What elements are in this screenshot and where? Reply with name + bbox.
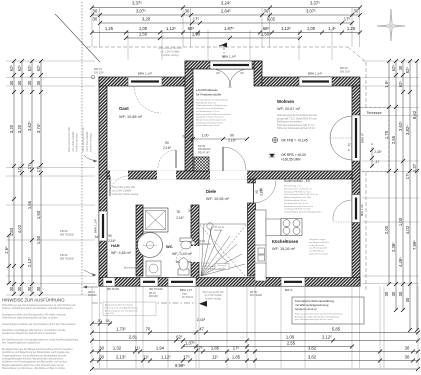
svg-text:11⁵: 11⁵ [134,346,140,351]
svg-text:ausgeführt werden. Innenputz: ausgeführt werden. Innenputz [196,116,224,119]
svg-text:1,87⁵: 1,87⁵ [224,26,234,31]
rotated pipe note left 2 [81,127,93,152]
dimension chain bottom row D [90,346,420,354]
svg-text:DN 70/100: DN 70/100 [60,257,74,261]
kitchen small dim [259,188,263,192]
extension lines top [91,8,93,47]
svg-text:30: 30 [17,80,22,85]
svg-text:des Tragwerksplaners maßgebend: des Tragwerksplaners maßgebend. [2,342,41,345]
svg-text:WC: WC [166,244,173,249]
svg-text:Treppe: Treppe [202,262,210,265]
svg-text:30: 30 [93,17,98,22]
RR 01 arrow to wall corner [84,270,96,275]
door Diele/Kueche [248,179,277,203]
svg-text:Ausführung und Anordnung der L: Ausführung und Anordnung der Lüftungsöff… [295,315,340,318]
svg-text:Abgasleitung Brennwertgerät: Abgasleitung Brennwertgerät [105,304,134,307]
FR 03 note [198,239,211,246]
dimension chain right col 1 [384,59,391,296]
FR 02 note [60,253,74,261]
svg-text:mit 1,5% Gefälle: mit 1,5% Gefälle [160,49,180,53]
svg-text:Planung und Dimensionierung du: Planung und Dimensionierung durch Herste… [295,313,344,316]
svg-text:HAR: HAR [111,243,120,248]
svg-text:1,94: 1,94 [156,346,165,351]
door gap HAR [110,171,128,180]
svg-text:3,37⁵: 3,37⁵ [132,1,142,6]
LAU window door arcs [212,69,248,88]
sewer connection arrow [84,155,97,161]
svg-text:17⁵: 17⁵ [17,166,22,173]
svg-text:68⁵: 68⁵ [188,26,195,31]
dimension chain bottom row F overall [90,363,420,371]
svg-text:11⁵: 11⁵ [143,355,149,360]
svg-text:1,00: 1,00 [202,134,209,138]
dimension chain bottom row C [181,341,354,349]
svg-text:3,82⁵: 3,82⁵ [405,125,410,135]
dimension chain bottom row B [90,335,420,343]
terrace double door leaves [330,116,352,160]
svg-text:Sauberkeitsschicht 5 cm: Sauberkeitsschicht 5 cm [284,202,308,205]
svg-text:Wandstärke 10cm als: Wandstärke 10cm als [196,101,216,104]
svg-text:30: 30 [405,346,410,351]
wall HAR/WC divider [136,205,143,276]
svg-text:Brennwertgerät: Brennwertgerät [124,267,140,270]
svg-text:BRH 1,14⁵: BRH 1,14⁵ [138,72,153,76]
svg-text:62⁵: 62⁵ [9,65,14,72]
dimension chain left col 4 [36,59,43,296]
dimension chain right col 5 [412,59,419,332]
section line A bottom with arrow [92,302,196,304]
door Gast (from Diele) [158,150,176,168]
Gasanschluss marker [215,264,229,270]
Abgasleitung lines [105,304,139,316]
svg-text:4,49⁵: 4,49⁵ [398,257,403,267]
svg-text:BRH 1,14⁵: BRH 1,14⁵ [360,204,364,216]
window bottom (Kueche) [281,278,305,287]
svg-text:8,62: 8,62 [412,110,417,119]
wall left exterior [99,77,107,286]
svg-text:von Metallbauer: von Metallbauer [309,250,325,253]
svg-text:62⁵: 62⁵ [27,65,32,72]
svg-text:2,43⁵: 2,43⁵ [197,318,206,322]
svg-text:an der Bauseite: an der Bauseite [309,244,325,247]
svg-text:Höhe der Aufmauerung hat 4,5 c: Höhe der Aufmauerung hat 4,5 cm [277,127,315,130]
svg-text:BRH 1,14⁵: BRH 1,14⁵ [222,55,237,59]
svg-text:3,82: 3,82 [308,346,317,351]
door size labels kitchen door [255,190,259,194]
chimney RD 47/47 [194,157,209,171]
svg-text:17⁵: 17⁵ [405,173,410,180]
window BRH 1,14 top-left (Gast) [128,77,162,86]
svg-text:Gemäß LAU-VO am Wärmebedarf: Gemäß LAU-VO am Wärmebedarf [196,99,228,102]
svg-text:Terrasse: Terrasse [366,110,382,115]
svg-text:17⁵: 17⁵ [344,17,351,22]
svg-text:1,50: 1,50 [36,235,41,244]
svg-text:17⁵: 17⁵ [233,346,240,351]
svg-text:nach Angabe: nach Angabe [202,265,216,268]
svg-text:11⁵: 11⁵ [212,355,218,360]
FR 01 note [149,292,158,298]
shower [143,208,168,232]
dimension chain top row 4 [90,26,362,35]
Treppe nach Angabe [202,262,218,271]
FR 05 note [250,291,263,297]
svg-text:DN 100: DN 100 [149,295,158,298]
Wohnen Aufmauerung note [277,114,317,130]
door LAU/hall leaf open [223,147,246,171]
wall right exterior [352,86,360,286]
svg-text:4,02: 4,02 [17,224,22,233]
wall top-left exterior [99,77,193,86]
svg-text:WF: 20,67 m²: WF: 20,67 m² [277,107,301,111]
Lunos box [292,297,364,324]
svg-text:30: 30 [405,297,410,302]
svg-text:BD 70./100: BD 70./100 [150,287,164,291]
terrace outline [360,108,389,172]
svg-text:30: 30 [398,291,403,296]
svg-text:frostfrei verlegt: frostfrei verlegt [89,133,93,152]
svg-text:78: 78 [176,210,180,214]
terrace door opening right wall [352,115,360,161]
dimension chain top row 3 [93,17,354,26]
svg-text:DN 100: DN 100 [94,70,104,74]
Gast window leaf arc [134,86,161,113]
svg-text:,47: ,47 [375,160,380,164]
svg-text:30: 30 [384,291,389,296]
svg-text:30: 30 [9,286,14,291]
FR 04 note [60,229,74,237]
svg-text:frostfrei verlegt: frostfrei verlegt [161,53,178,57]
dimension chain bottom row A [90,327,420,335]
dimension chain left col 3 [27,59,34,296]
svg-text:OK RFB = ±0,00: OK RFB = ±0,00 [281,153,306,157]
svg-text:2,38⁵: 2,38⁵ [391,242,396,252]
LAU details [196,99,231,128]
door gap WC [191,246,200,262]
svg-text:1,00: 1,00 [139,26,148,31]
note RW-Leitung top [158,46,182,57]
svg-text:3,20: 3,20 [17,124,22,133]
svg-text:dort Bst.: dort Bst. [218,267,226,270]
sewer main dotted line [81,2,83,296]
svg-text:1,37: 1,37 [412,163,417,172]
svg-text:Gasanschl.: Gasanschl. [217,265,227,267]
boiler Brennwertkessel [138,233,163,258]
svg-text:30: 30 [17,286,22,291]
svg-text:BRH 1,14⁵: BRH 1,14⁵ [94,218,98,233]
svg-text:Gast: Gast [119,106,129,111]
svg-text:Estrichbelag 1 cm: Estrichbelag 1 cm [284,185,302,188]
dimension chain left col 2 [17,59,24,296]
svg-text:30: 30 [93,9,98,14]
dimension chain bottom row E [90,355,420,363]
svg-text:17⁵: 17⁵ [183,355,190,360]
svg-text:90: 90 [108,234,112,238]
svg-text:1,50: 1,50 [261,32,270,37]
svg-text:1,4⁵: 1,4⁵ [328,26,336,31]
svg-text:Planverfasser zu informieren.: Planverfasser zu informieren. Alle Maße … [2,367,66,370]
svg-text:2,81: 2,81 [129,335,138,340]
svg-text:frostfrei verlegt: frostfrei verlegt [75,133,79,152]
door Kueche right wall arc [333,200,352,222]
svg-text:30: 30 [354,9,359,14]
roof overhang right side [365,62,367,107]
svg-text:DN 70/100: DN 70/100 [250,294,263,297]
svg-text:mit 2,5% Gefälle: mit 2,5% Gefälle [112,188,132,192]
svg-text:2,12⁵: 2,12⁵ [27,257,32,267]
svg-text:30: 30 [36,286,41,291]
svg-text:von Sparte und Glas: von Sparte und Glas [309,241,330,244]
svg-text:1,73⁵: 1,73⁵ [116,327,126,332]
svg-text:1,85: 1,85 [211,346,220,351]
svg-text:DN 100: DN 100 [88,294,97,297]
dimension chain left col 1 [9,59,16,296]
window BRH 1,14 top-right (Wohnen) [299,77,332,86]
svg-text:6,02: 6,02 [267,17,276,22]
section arrow top [223,44,225,58]
svg-text:30: 30 [264,9,269,14]
stove with 4 plates [281,219,302,236]
svg-text:2,16⁵: 2,16⁵ [108,239,116,243]
svg-text:BRH 1,27: BRH 1,27 [180,288,193,292]
washing machine [146,261,161,276]
svg-text:30: 30 [405,355,410,360]
svg-text:17: 17 [347,143,351,147]
svg-text:30: 30 [36,80,41,85]
wall top-right exterior [262,77,360,86]
svg-text:30: 30 [185,9,190,14]
sewer diagonal line RW [58,17,100,62]
svg-text:1,12⁵: 1,12⁵ [166,26,176,31]
svg-text:68⁵: 68⁵ [263,26,270,31]
wall Diele/Kueche divider [248,203,256,276]
staircase to basement [200,224,246,277]
svg-text:17⁵: 17⁵ [27,163,32,170]
svg-text:2,16⁵: 2,16⁵ [163,146,172,150]
svg-text:2,13⁵: 2,13⁵ [116,355,126,360]
svg-text:3,82: 3,82 [308,355,317,360]
svg-text:BRH 9⁵: BRH 9⁵ [361,132,365,143]
small dims near terrace [371,147,373,167]
svg-text:BD 18./18: BD 18./18 [107,287,119,291]
dimension chain top row 5 [124,32,302,41]
note BR 03 [94,67,104,74]
svg-text:62⁵: 62⁵ [391,65,396,72]
svg-text:Landesbauordnung beachten: Landesbauordnung beachten [196,121,224,124]
svg-text:75: 75 [182,135,186,139]
svg-text:OK FFB = +0,145: OK FFB = +0,145 [281,139,308,143]
extension lines right [362,60,419,62]
svg-text:Stahlbetonplatte 18 cm: Stahlbetonplatte 18 cm [284,199,307,202]
svg-text:30: 30 [391,291,396,296]
svg-text:RD 47./47: RD 47./47 [198,150,210,154]
door gap LAU and hall door [210,171,247,180]
svg-text:Trennlage PE-Folie 0,2 mm: Trennlage PE-Folie 0,2 mm [284,190,311,193]
svg-text:+160,55 ÜNN: +160,55 ÜNN [281,158,301,162]
door gap Gast [157,171,176,180]
dimension chain top row 2 [90,9,362,18]
svg-text:3,37⁵: 3,37⁵ [310,1,320,6]
svg-text:Brennwertgerät und installateu: Brennwertgerät und installateuren [105,309,139,312]
WC washbasin [180,238,192,249]
svg-text:PS-Dämmplatte WLG 035 10,5 cm: PS-Dämmplatte WLG 035 10,5 cm [284,193,318,196]
wall bottom exterior [99,278,360,287]
svg-text:17⁵: 17⁵ [36,166,41,173]
Kueche Loggia note [309,238,330,256]
door WC (from Diele) [176,247,191,262]
svg-text:2,55: 2,55 [391,135,396,144]
svg-text:DN 50/100: DN 50/100 [198,242,211,246]
svg-text:2,6⁵: 2,6⁵ [4,246,9,254]
svg-text:2,12⁵: 2,12⁵ [322,335,332,340]
wall WC/stairs divider [191,205,199,278]
svg-text:1,75: 1,75 [384,130,389,139]
svg-text:1,12⁵: 1,12⁵ [161,355,171,360]
svg-text:Führung zwischen Abgabeleitung: Führung zwischen Abgabeleitung [105,306,138,309]
wall jog right of raised section [254,61,262,86]
svg-text:unter der Sohle verlegt: unter der Sohle verlegt [112,192,139,196]
svg-text:Unternehmer eigenverantwortlic: Unternehmer eigenverantwortlich am Bau z… [2,316,59,319]
svg-text:2,55: 2,55 [287,341,296,346]
svg-text:OK: OK [216,71,220,75]
svg-text:WF: 10,88 m²: WF: 10,88 m² [119,115,143,119]
svg-text:62⁵: 62⁵ [405,67,410,74]
svg-text:Druckfestigkeit gemäß Statikgu: Druckfestigkeit gemäß Statikgutachten [284,211,322,214]
svg-text:1,25: 1,25 [105,26,114,31]
svg-text:2,00: 2,00 [384,225,389,234]
FR 06 note [198,144,211,154]
svg-text:BRh 9⁵: BRh 9⁵ [285,288,293,292]
stair walk line with circle [207,223,213,229]
svg-text:20: 20 [188,209,192,213]
svg-text:4,02: 4,02 [405,225,410,234]
svg-text:Zementestrich CT-F4 4,5 cm: Zementestrich CT-F4 4,5 cm [284,187,312,190]
OK FFB marker [272,137,277,142]
VB Decke ueber EG [214,227,225,232]
svg-text:gem. Montageanleitungen der Fa: gem. Montageanleitungen der Fa. Lunos [295,318,332,321]
svg-text:5,85: 5,85 [332,327,341,332]
svg-text:1,50: 1,50 [192,32,201,37]
svg-text:1,66: 1,66 [27,200,32,209]
svg-text:90: 90 [259,188,263,192]
svg-text:auf Mindeststärke 1,5 cm: auf Mindeststärke 1,5 cm [196,110,219,113]
svg-text:BRH 1,14⁵: BRH 1,14⁵ [308,72,323,76]
svg-text:2,16⁵: 2,16⁵ [176,216,184,220]
vent circle FR03 [191,241,195,245]
svg-text:90: 90 [230,134,234,138]
svg-text:90: 90 [165,141,169,145]
svg-text:2,64⁵: 2,64⁵ [221,9,231,14]
svg-text:1,00: 1,00 [307,26,316,31]
svg-text:WF: 4,65 m²: WF: 4,65 m² [111,251,132,255]
svg-text:Verglaste Loggia: Verglaste Loggia [309,238,326,241]
svg-text:über EG: über EG [214,229,223,232]
dimension chain left col A [4,233,11,285]
svg-text:aus Planungsprofil: aus Planungsprofil [309,247,328,250]
svg-text:Küche/Essen: Küche/Essen [272,239,299,244]
svg-text:3,07⁵: 3,07⁵ [306,9,316,14]
svg-text:1,93: 1,93 [36,210,41,219]
svg-text:,47: ,47 [198,327,204,332]
note BR 02 [340,66,350,73]
OK RFB marker [269,154,275,157]
svg-text:9,99⁵: 9,99⁵ [175,363,185,368]
WC toilet [178,258,189,275]
svg-text:WF: 3,43 m²: WF: 3,43 m² [172,252,193,256]
window/door right wall (Kueche) [352,195,360,223]
svg-text:Bodenaufbau - EG: Bodenaufbau - EG [284,179,311,183]
svg-text:3,62⁵: 3,62⁵ [27,121,32,131]
svg-text:DN 50/100: DN 50/100 [182,297,194,299]
svg-text:Außen- gemäß Schallschutznachw: Außen- gemäß Schallschutznachweis [196,113,231,116]
kitchen north counter band [266,219,281,236]
svg-text:70: 70 [146,327,151,332]
RR 01 note [88,291,97,297]
svg-text:30: 30 [398,65,403,70]
svg-text:30: 30 [27,286,32,291]
svg-text:für Festbrennstoffe: für Festbrennstoffe [196,93,221,97]
svg-text:SW-Leitung DN 100: SW-Leitung DN 100 [112,185,136,189]
svg-text:17⁵: 17⁵ [196,346,203,351]
svg-text:DN 70/100: DN 70/100 [60,233,74,237]
dimension chain top row 1 [90,1,362,10]
kitchen counter [255,210,266,281]
svg-text:7,99⁵: 7,99⁵ [412,240,417,250]
svg-text:3,74⁵: 3,74⁵ [36,123,41,133]
VSB note [182,294,194,299]
roof overhang dashed outline top [87,46,348,48]
svg-text:2,43⁵: 2,43⁵ [374,150,382,154]
dim line LAU doors [193,138,247,140]
svg-text:VB Decke: VB Decke [214,227,225,229]
door HAR (from Diele) [110,176,128,196]
svg-text:HINWEISE ZUR AUSFÜHRUNG: HINWEISE ZUR AUSFÜHRUNG [2,298,65,303]
svg-text:1,32: 1,32 [113,346,122,351]
svg-text:62⁵: 62⁵ [398,81,403,88]
svg-text:Planziegelwände im Erdgeschoss: Planziegelwände im Erdgeschoss [196,104,227,107]
svg-text:30: 30 [27,80,32,85]
svg-text:Wohnen: Wohnen [277,99,295,104]
svg-text:Abdichtungsbahn nach DIN: Abdichtungsbahn nach DIN [284,196,311,199]
wall raised top section [185,61,262,69]
svg-text:3,24⁵: 3,24⁵ [221,1,231,6]
svg-text:WF: 10,08 m²: WF: 10,08 m² [206,197,230,201]
svg-text:abgesichert werden: abgesichert werden [309,253,329,256]
svg-text:1,12⁵: 1,12⁵ [281,26,291,31]
svg-text:18: 18 [106,319,110,323]
svg-text:örtlichen Verhältnisse durch d: örtlichen Verhältnisse durch den Bauleit… [2,307,73,310]
svg-text:Brandschutzanforderungen nach: Brandschutzanforderungen nach [196,118,227,121]
svg-text:DN 100: DN 100 [340,69,350,73]
svg-text:Abweichungen bedürfen der Gene: Abweichungen bedürfen der Genehmigung du… [2,323,76,326]
svg-text:verd. F/b: verd. F/b [105,312,114,315]
dimension chain right col 4 [405,59,412,332]
north arrow star [377,9,405,41]
extension lines bottom [91,286,93,368]
Bodenaufbau lines [284,185,322,214]
svg-text:1,00: 1,00 [398,217,403,226]
svg-text:System Lunos e²: System Lunos e² [295,307,317,311]
svg-text:1,25: 1,25 [347,26,356,31]
svg-text:1,50: 1,50 [139,32,148,37]
window BRH 1,14 raised section (LAU) [210,61,252,69]
svg-text:34⁵: 34⁵ [95,235,101,239]
svg-text:BH: BH [204,167,207,169]
svg-text:62⁵: 62⁵ [36,65,41,72]
svg-text:62⁵: 62⁵ [17,65,22,72]
floor duct BD 18/18 bottom [103,278,115,287]
dimension chain right col 2 [391,59,398,312]
svg-text:1,00: 1,00 [286,335,295,340]
